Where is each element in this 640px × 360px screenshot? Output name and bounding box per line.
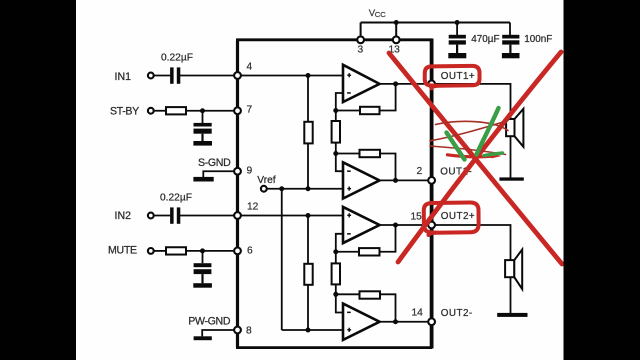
ground bar S-GND — [193, 177, 213, 182]
wire S-GND from pin 9 — [203, 171, 237, 177]
resistor Rdiv3 (vertical) — [304, 264, 312, 285]
svg-text:2: 2 — [417, 166, 423, 177]
wire U1B fb node to feedback resistor — [336, 153, 360, 155]
pin 14 OUT2- — [428, 318, 435, 325]
node OUT1- fb tap — [393, 178, 398, 183]
resistor Rdiv1 (vertical) — [304, 122, 312, 144]
resistor R-STBY — [166, 107, 186, 114]
wire fb node1 to feedback resistor — [336, 110, 360, 112]
pin 9 — [234, 168, 241, 175]
wire fb node3 to feedback resistor — [336, 251, 359, 253]
wire Rdiv4 to U1D fb node — [335, 284, 337, 294]
wire VCC to 100nF — [509, 23, 511, 36]
node ST-BY/C2 — [200, 108, 205, 113]
open terminal circles — [148, 36, 435, 333]
node OUT2- fb tap — [393, 319, 398, 324]
red X stroke (top-right to bottom-left) — [398, 52, 561, 262]
svg-text:4: 4 — [247, 62, 253, 73]
wire Rdiv1 to Vref line — [307, 143, 309, 188]
wire amp U1A output to pin OUT1+ — [379, 83, 432, 85]
wire PW-GND from pin 8 — [202, 330, 237, 336]
node fb U1A — [333, 108, 338, 113]
wire VCC to pin 13 — [395, 23, 397, 40]
label VCC — [369, 8, 386, 19]
svg-text:0.22µF: 0.22µF — [161, 53, 193, 64]
svg-text:6: 6 — [247, 246, 253, 257]
wire bias line to amp U1D + input — [282, 329, 343, 331]
op-amp U1D — [343, 304, 380, 340]
pin 3 — [357, 36, 364, 43]
svg-text:12: 12 — [247, 202, 259, 213]
svg-text:9: 9 — [247, 166, 253, 177]
wire speaker 1 to ground — [510, 136, 512, 177]
svg-text:15: 15 — [411, 212, 423, 223]
green dash — [484, 153, 503, 156]
svg-text:ST-BY: ST-BY — [110, 106, 139, 118]
IC U1 amplifier box — [236, 39, 432, 349]
ground bar under speaker 1 — [499, 177, 523, 180]
wire amp U1C inverting stub — [336, 234, 343, 252]
pin 8 — [234, 327, 241, 334]
pin 12 — [234, 212, 241, 219]
terminal ST-BY — [148, 108, 154, 114]
node fb U1B — [333, 151, 338, 156]
wire Rdiv3 to bias line — [307, 284, 309, 330]
node bias/Rdiv3 — [306, 328, 311, 333]
op-amp U1B — [343, 162, 380, 198]
wire IN1 terminal to coupling cap — [154, 75, 171, 77]
resistor Rdiv2 (vertical) — [332, 121, 340, 143]
svg-text:OUT1+: OUT1+ — [441, 71, 475, 82]
wire C3 to pin 12 and amp U1C input — [180, 215, 343, 217]
svg-text:100nF: 100nF — [524, 34, 552, 45]
op-amp U1A — [343, 65, 380, 102]
svg-text:3: 3 — [358, 45, 364, 56]
pin 2 OUT1- — [428, 177, 435, 184]
wire fb node3 down — [335, 252, 337, 263]
capacitor C6 100nF — [502, 35, 519, 53]
wire amp U1B output to pin 2 — [379, 179, 432, 181]
node MUTE/C4 — [200, 248, 205, 253]
ground bar under C4 — [193, 283, 212, 288]
pin 6 — [234, 248, 241, 255]
wire Rfb2 to OUT1- line — [380, 154, 396, 181]
green check long arm — [477, 108, 499, 155]
wire VCC to 470uF — [456, 23, 458, 36]
terminal IN1 — [148, 73, 154, 79]
ground bar under C6 — [502, 53, 520, 58]
red scribble arrow tip — [492, 154, 502, 159]
red ring around OUT1+ — [425, 66, 480, 88]
svg-text:OUT2-: OUT2- — [441, 308, 473, 319]
red scribble stroke lower — [430, 146, 506, 155]
pin 1 OUT1+ — [428, 81, 435, 88]
wire C1 to pin 4 and amp U1A input, node at x308 — [180, 75, 343, 77]
terminal Vref — [261, 186, 267, 192]
svg-text:MUTE: MUTE — [108, 245, 137, 257]
wire Rfb1 to OUT1+ line — [380, 84, 396, 111]
svg-text:IN1: IN1 — [115, 71, 132, 83]
ground bar under speaker 2 — [497, 313, 527, 317]
ground bar under C5 — [448, 53, 466, 58]
svg-text:CC: CC — [375, 10, 386, 19]
resistor Rfb2 — [360, 150, 381, 157]
node OUT1+ fb tap — [393, 81, 398, 86]
capacitor C2 (ST-BY to gnd) — [194, 123, 212, 141]
red X stroke (top-left to bottom-right) — [389, 53, 562, 264]
node IN1/Rdiv1 — [306, 73, 311, 78]
wire bias rail x282 down from Vref line — [281, 189, 283, 330]
wire Rfb3 to OUT2+ line — [380, 225, 396, 252]
node IN2/Rdiv3 — [306, 213, 311, 218]
wire amp U1C output to pin 15 — [379, 224, 432, 226]
node fb U1D — [333, 292, 338, 297]
op-amp U1C — [343, 207, 380, 243]
svg-text:14: 14 — [412, 308, 424, 319]
wire Rfb4 to OUT2- line — [380, 294, 396, 321]
wire divider x308 lower — [307, 216, 309, 264]
wire Rdiv2 to U1B fb node — [335, 143, 337, 154]
svg-text:0.22µF: 0.22µF — [160, 193, 192, 204]
resistor Rfb3 — [359, 248, 380, 255]
red scribble stroke middle — [430, 121, 508, 141]
wire amp U1A inverting stub — [336, 93, 343, 111]
pin 13 — [393, 36, 400, 43]
node Vref/Rdiv1 — [306, 186, 311, 191]
red ring around OUT2+ — [424, 202, 479, 235]
pin 15 OUT2+ — [428, 222, 435, 229]
wire amp U1D output to pin 14 — [379, 321, 432, 323]
VCC rail wire — [361, 22, 510, 24]
speaker LS2 — [505, 250, 522, 290]
pin 7 — [234, 107, 241, 114]
node VCC/pin13 — [394, 20, 399, 25]
wire VCC to pin 3 — [360, 23, 362, 40]
ground bar PW-GND — [194, 336, 212, 340]
right letterbox bar — [564, 0, 640, 360]
svg-text:Vref: Vref — [257, 175, 275, 186]
wire IN2 terminal to coupling cap — [154, 215, 171, 217]
svg-text:IN2: IN2 — [115, 210, 132, 222]
resistor Rfb1 — [360, 107, 380, 114]
red scribble thick dash — [448, 155, 495, 157]
capacitor C1 0.22uF (series, IN1) — [170, 67, 180, 83]
node VCC/470uF — [455, 20, 460, 25]
wire MUTE terminal to resistor — [154, 250, 167, 252]
capacitor C4 (MUTE to gnd) — [194, 263, 212, 283]
svg-text:470µF: 470µF — [471, 34, 499, 45]
left letterbox bar — [0, 0, 76, 360]
resistor R-MUTE — [166, 247, 186, 254]
green check short arm — [447, 133, 465, 160]
wire U1A fb node down — [335, 111, 337, 122]
wire speaker 2 to ground — [510, 277, 512, 313]
wire Vref node to amp U1B + input — [267, 188, 343, 190]
node fb U1C — [333, 249, 338, 254]
wire resistor to pin 6 — [186, 250, 238, 252]
wire fb node4 to feedback resistor — [336, 293, 360, 295]
pin 4 — [234, 72, 241, 79]
ground bar under C2 — [193, 141, 212, 146]
wire divider x308 upper — [307, 76, 309, 122]
resistor Rfb4 — [360, 291, 381, 298]
wire resistor to pin 7 — [186, 110, 238, 112]
svg-text:8: 8 — [246, 326, 252, 337]
node Vref/x282 — [279, 186, 284, 191]
capacitor C3 0.22uF (series, IN2) — [170, 207, 180, 223]
speaker LS1 — [506, 109, 523, 147]
svg-text:7: 7 — [247, 105, 253, 116]
resistor Rdiv4 (vertical) — [332, 263, 340, 284]
wire U1B inverting stub — [336, 154, 343, 172]
wire node to ST-BY cap — [202, 111, 204, 123]
node OUT2+ fb tap — [393, 223, 398, 228]
terminal IN2 — [148, 213, 154, 219]
svg-text:S-GND: S-GND — [198, 157, 231, 169]
wire U1D inverting stub — [336, 294, 343, 312]
capacitor C5 470uF — [449, 35, 466, 53]
red scribble stroke upper — [436, 121, 509, 130]
terminal MUTE — [148, 248, 154, 254]
wire OUT2+ to speaker 2 — [432, 225, 511, 261]
svg-text:OUT2+: OUT2+ — [441, 211, 475, 222]
svg-text:PW-GND: PW-GND — [188, 316, 231, 328]
wire node to MUTE cap — [202, 251, 204, 263]
wire ST-BY terminal to resistor — [154, 110, 167, 112]
wire OUT1+ to speaker 1 — [432, 84, 511, 120]
